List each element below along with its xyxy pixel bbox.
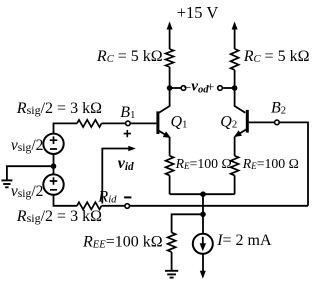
svg-text:Rsig/2 = 3 kΩ: Rsig/2 = 3 kΩ	[16, 100, 102, 117]
svg-text:+: +	[207, 79, 215, 94]
svg-text:–: –	[183, 78, 191, 93]
svg-text:RC = 5 kΩ: RC = 5 kΩ	[243, 48, 310, 65]
svg-text:I= 2 mA: I= 2 mA	[216, 232, 272, 249]
svg-text:Rsig/2 = 3 kΩ: Rsig/2 = 3 kΩ	[16, 208, 102, 225]
svg-text:RC = 5 kΩ: RC = 5 kΩ	[96, 48, 163, 65]
svg-text:+15 V: +15 V	[177, 3, 219, 22]
svg-text:RE=100 Ω: RE=100 Ω	[175, 156, 232, 171]
svg-text:RE=100 Ω: RE=100 Ω	[242, 156, 299, 171]
